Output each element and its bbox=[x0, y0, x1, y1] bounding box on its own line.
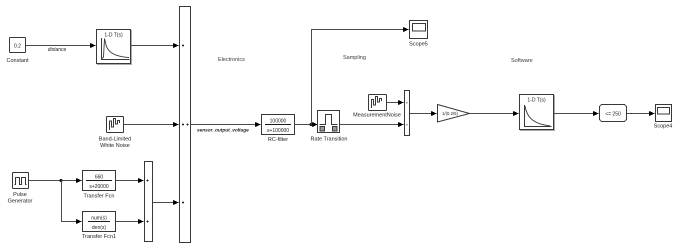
software filter block U2 "1-D T(s)" with decay curve bbox=[520, 95, 555, 131]
svg-text:sensor_output_voltage: sensor_output_voltage bbox=[197, 128, 249, 134]
section label Software bbox=[511, 58, 533, 64]
gain triangle 1/(0.2/5) bbox=[438, 105, 470, 123]
sensor dynamics block U1 "1-D T(s)" with impulse-decay curve bbox=[97, 30, 132, 65]
svg-text:MeasurementNoise: MeasurementNoise bbox=[353, 113, 401, 119]
svg-text:660: 660 bbox=[95, 175, 104, 181]
RC-filter transfer function block 100000/(s+100000) bbox=[262, 115, 295, 144]
pulse generator source block bbox=[8, 173, 33, 205]
svg-text:1/(0.2/5): 1/(0.2/5) bbox=[442, 111, 459, 116]
svg-text:distance: distance bbox=[48, 47, 67, 53]
wire: MeasurementNoise to sum input 1 bbox=[387, 100, 405, 105]
sum block bar with two plus inputs bbox=[405, 91, 410, 136]
svg-text:Software: Software bbox=[511, 58, 533, 64]
svg-text:den(s): den(s) bbox=[92, 225, 107, 231]
Electronics subsystem tall bar bbox=[180, 7, 191, 243]
svg-text:1-D T(s): 1-D T(s) bbox=[527, 98, 546, 104]
svg-text:Transfer Fcn: Transfer Fcn bbox=[84, 194, 115, 200]
junction node on pulse wire bbox=[59, 179, 62, 182]
svg-text:RC-filter: RC-filter bbox=[268, 137, 288, 143]
wire: white noise to Electronics bar input 2 bbox=[124, 122, 180, 127]
svg-text:1-D T(s): 1-D T(s) bbox=[104, 33, 123, 39]
section label Electronics bbox=[218, 57, 245, 63]
scope block Scope4 bbox=[654, 105, 673, 130]
band-limited white noise source block bbox=[99, 117, 131, 150]
wire: software filter to compare block bbox=[554, 111, 600, 116]
transfer function block Transfer Fcn 660/(s+20000) bbox=[83, 171, 116, 200]
svg-text:White Noise: White Noise bbox=[100, 143, 130, 149]
wire: Transfer Fcn1 to mux input 2 bbox=[116, 219, 145, 224]
scope block Scope5 bbox=[409, 21, 428, 48]
svg-text:<= 250: <= 250 bbox=[605, 112, 621, 118]
wire sensor_output_voltage: Electronics bar to RC-filter bbox=[191, 122, 262, 134]
svg-text:100000: 100000 bbox=[270, 119, 287, 125]
wire: mux to Electronics bar input 3 bbox=[153, 200, 180, 205]
svg-text:+: + bbox=[406, 101, 409, 106]
svg-text:num(s): num(s) bbox=[91, 216, 107, 222]
wire distance: Constant to sensor dynamics block bbox=[26, 43, 97, 53]
mux block combining transfer functions bbox=[145, 162, 153, 242]
section label Sampling bbox=[343, 55, 366, 61]
svg-text:0.2: 0.2 bbox=[14, 44, 21, 50]
rate transition block bbox=[311, 111, 348, 143]
compare to constant block <= 250 bbox=[600, 105, 627, 122]
wire: RC-filter to Rate Transition bbox=[295, 122, 319, 127]
svg-text:Scope5: Scope5 bbox=[409, 42, 428, 48]
svg-text:Band-Limited: Band-Limited bbox=[99, 137, 131, 143]
svg-text:Pulse: Pulse bbox=[13, 192, 27, 198]
svg-text:Transfer Fcn1: Transfer Fcn1 bbox=[82, 234, 116, 240]
wire: Rate Transition to sum input 2 bbox=[340, 122, 405, 127]
svg-text:Scope4: Scope4 bbox=[654, 124, 673, 130]
wire: sensor dynamics to Electronics bar input 1 bbox=[131, 43, 180, 48]
constant block Constant value 0.2 bbox=[6, 38, 28, 65]
svg-text:Rate Transition: Rate Transition bbox=[311, 137, 348, 143]
measurement noise source block MeasurementNoise bbox=[353, 95, 401, 119]
wire: gain to software filter block bbox=[470, 111, 520, 116]
junction node to scope branch bbox=[309, 123, 312, 126]
svg-text:Constant: Constant bbox=[6, 58, 28, 64]
transfer function block Transfer Fcn1 num(s)/den(s) bbox=[82, 212, 116, 241]
svg-text:s+100000: s+100000 bbox=[267, 128, 289, 134]
wire: pulse generator to Transfer Fcn bbox=[29, 178, 83, 183]
wire: Transfer Fcn to mux input 1 bbox=[116, 178, 145, 183]
svg-text:Sampling: Sampling bbox=[343, 55, 366, 61]
wire: sum to gain bbox=[410, 111, 438, 116]
svg-text:+: + bbox=[406, 123, 409, 128]
wire: junction up and right to Scope5 bbox=[312, 27, 410, 125]
wire: junction down and right to Transfer Fcn1 bbox=[62, 181, 83, 225]
svg-text:s+20000: s+20000 bbox=[89, 184, 109, 190]
svg-text:Generator: Generator bbox=[8, 199, 33, 205]
wire: compare block to Scope4 bbox=[627, 111, 656, 116]
svg-text:Electronics: Electronics bbox=[218, 57, 245, 63]
